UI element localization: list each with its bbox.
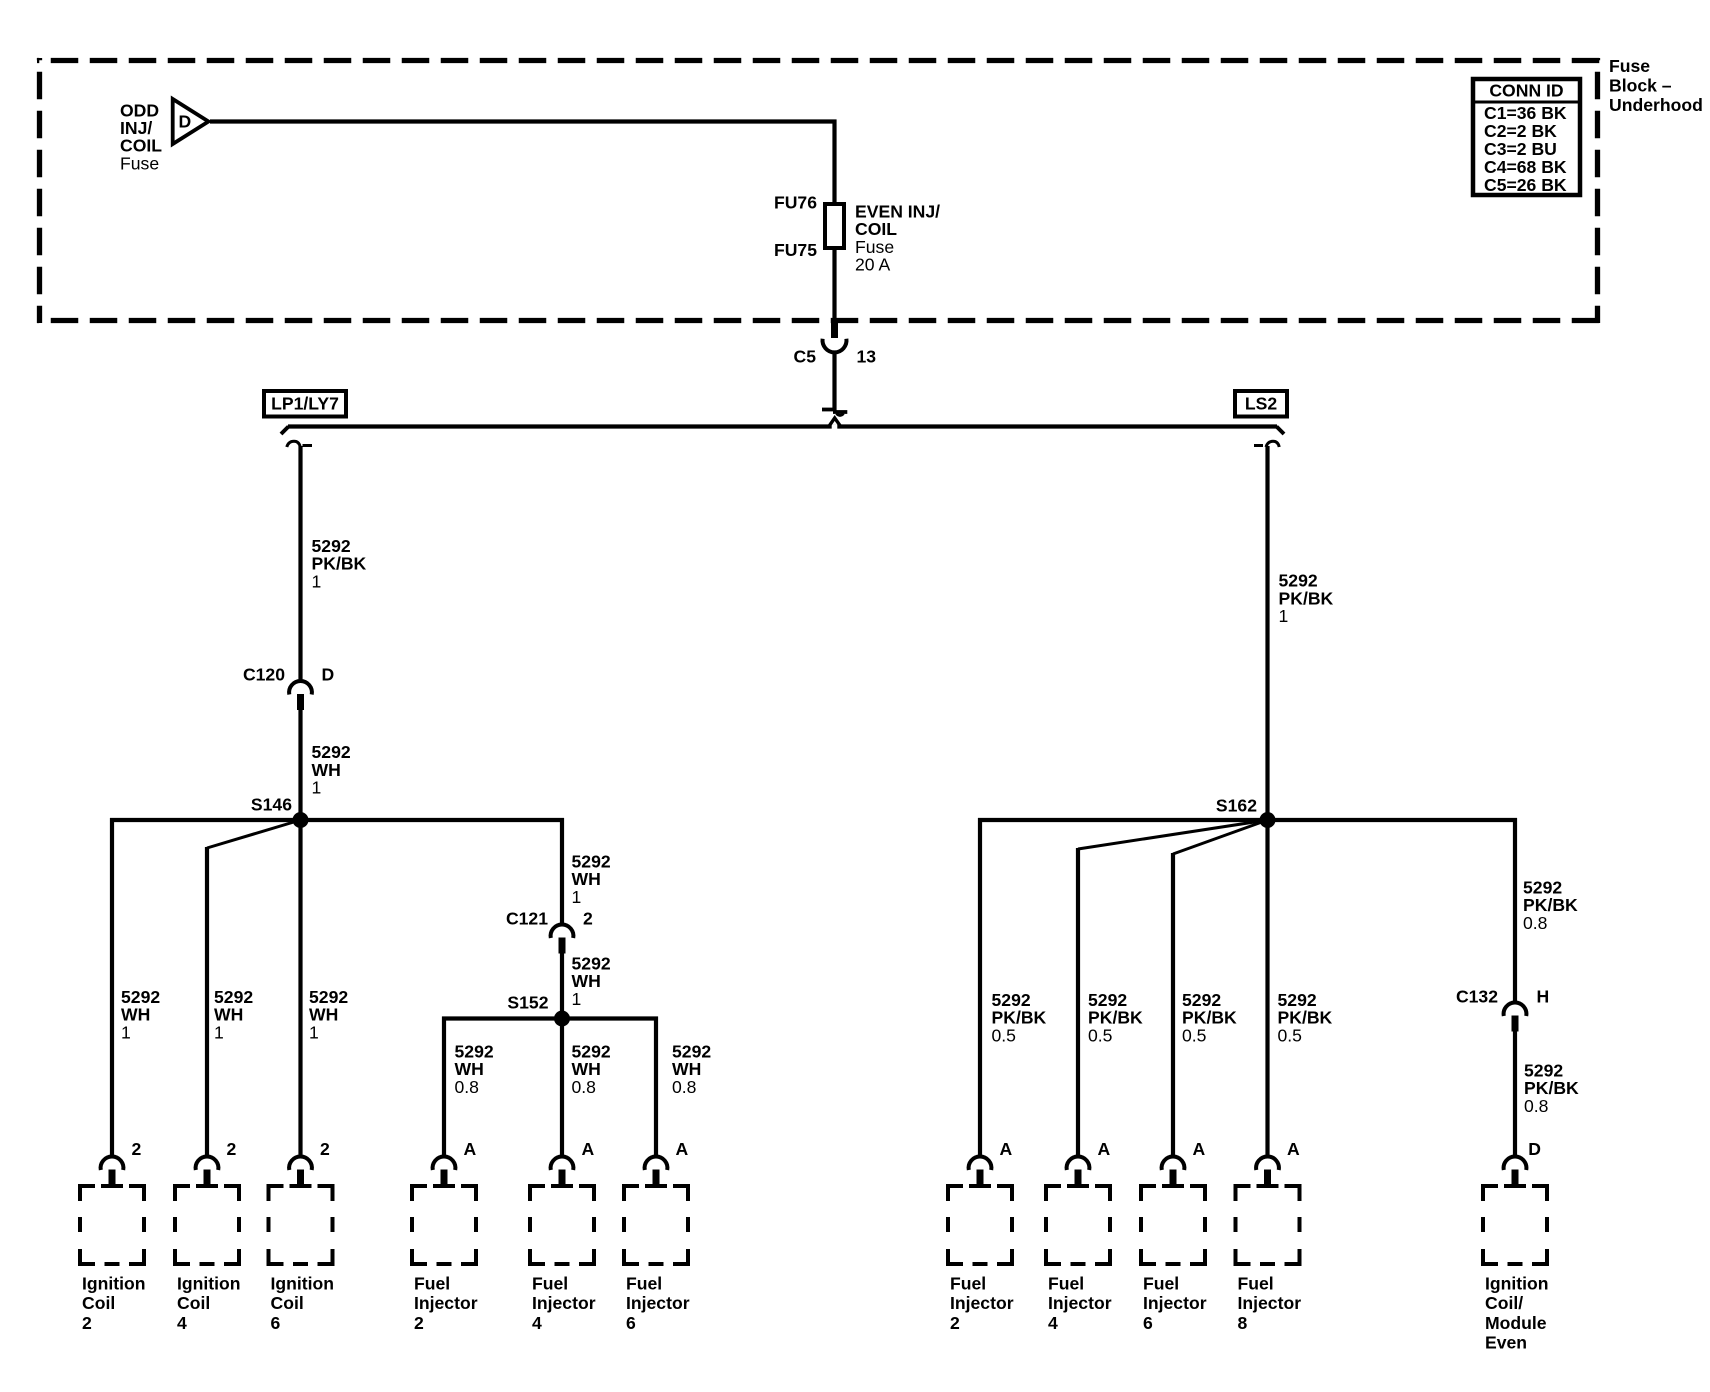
- svg-text:D: D: [1528, 1139, 1541, 1159]
- wire to Fuel Injector 6 (left): [654, 1017, 658, 1157]
- svg-text:Injector: Injector: [532, 1293, 596, 1313]
- svg-text:Coil: Coil: [271, 1293, 304, 1313]
- svg-text:0.5: 0.5: [992, 1025, 1017, 1045]
- wire to Fuel Injector 8: [1265, 820, 1269, 1157]
- node LS2: [1235, 391, 1287, 417]
- svg-text:Fuse: Fuse: [1609, 56, 1650, 76]
- label C132: [1456, 986, 1498, 1006]
- svg-text:Injector: Injector: [1143, 1293, 1207, 1313]
- svg-text:A: A: [464, 1139, 477, 1159]
- label FU76: [774, 192, 817, 212]
- svg-text:0.5: 0.5: [1088, 1025, 1113, 1045]
- svg-text:1: 1: [309, 1022, 319, 1042]
- component box Ignition Coil 4: [175, 1186, 239, 1264]
- svg-text:Injector: Injector: [950, 1293, 1014, 1313]
- svg-text:Ignition: Ignition: [177, 1273, 241, 1293]
- component box Fuel Injector 2: [948, 1186, 1012, 1264]
- label 5292 WH 1 (coil 2): [121, 987, 160, 1043]
- label Fuel Injector 2: [414, 1273, 478, 1333]
- label FU75: [774, 240, 817, 260]
- svg-text:13: 13: [857, 346, 877, 366]
- wire 5292 PK/BK to S162: [1265, 446, 1269, 820]
- svg-text:Even: Even: [1485, 1333, 1527, 1353]
- connector C121 pin 2: [551, 924, 574, 953]
- label 5292 WH 1 (coil 4): [214, 987, 253, 1043]
- svg-text:1: 1: [572, 989, 582, 1009]
- splice S162: [1260, 812, 1276, 828]
- pin H: [1537, 986, 1550, 1006]
- wire to Fuel Injector 2 (left): [442, 1017, 446, 1157]
- svg-text:Injector: Injector: [626, 1293, 690, 1313]
- connector pin 2 at Ignition Coil 6: [289, 1156, 312, 1185]
- fuse FU76/FU75 EVEN INJ/COIL 20A: [825, 204, 844, 248]
- fuse symbol ODD INJ/COIL (triangle D): [173, 99, 209, 144]
- pin A: [676, 1139, 689, 1159]
- connector pin A at Fuel Injector 6: [1162, 1156, 1185, 1185]
- svg-text:Injector: Injector: [1238, 1293, 1302, 1313]
- node LP1/LY7: [264, 391, 346, 417]
- svg-text:0.8: 0.8: [1524, 1096, 1549, 1116]
- label Fuel Injector 4: [1048, 1273, 1112, 1333]
- wire S152 bus: [442, 1016, 658, 1020]
- pin A: [1287, 1139, 1300, 1159]
- connector pin A at Fuel Injector 2: [433, 1156, 456, 1185]
- label 5292 WH 1 (below C121): [572, 953, 611, 1009]
- wire C121 to S152: [560, 954, 564, 1019]
- label C5: [794, 346, 817, 366]
- svg-text:4: 4: [177, 1313, 187, 1333]
- svg-text:2: 2: [583, 908, 593, 928]
- connector pin 2 at Ignition Coil 4: [196, 1156, 219, 1185]
- svg-text:1: 1: [312, 572, 322, 592]
- label Fuse Block - Underhood: [1609, 56, 1703, 115]
- svg-text:C5=26 BK: C5=26 BK: [1484, 175, 1567, 195]
- label Ignition Coil/ Module Even: [1485, 1273, 1549, 1352]
- svg-text:Coil: Coil: [177, 1293, 210, 1313]
- label 5292 WH 1 (below C120): [312, 742, 351, 798]
- svg-text:Block –: Block –: [1609, 75, 1672, 95]
- component box Fuel Injector 6: [624, 1186, 688, 1264]
- splice S146: [293, 812, 309, 828]
- connector pin A at Fuel Injector 6: [645, 1156, 668, 1185]
- svg-text:Coil: Coil: [82, 1293, 115, 1313]
- wire to Fuel Injector 2 (right): [978, 818, 982, 1157]
- svg-text:Fuel: Fuel: [950, 1273, 986, 1293]
- connector pin D at Ignition Coil/ Module Even: [1504, 1156, 1527, 1185]
- label Ignition Coil 2: [82, 1273, 146, 1333]
- label 5292 PK/BK 0.5 (inj 2): [992, 990, 1047, 1046]
- wire to Fuel Injector 4 (left): [560, 1019, 564, 1157]
- label 5292 WH 1 (above C121): [572, 851, 611, 907]
- label 5292 PK/BK 0.8 (above C132): [1523, 877, 1578, 933]
- svg-text:A: A: [1287, 1139, 1300, 1159]
- svg-text:D: D: [179, 111, 192, 131]
- svg-text:Fuel: Fuel: [626, 1273, 662, 1293]
- wire S162 to C132: [1513, 818, 1517, 1003]
- svg-text:Ignition: Ignition: [82, 1273, 146, 1293]
- component box Ignition Coil 2: [80, 1186, 144, 1264]
- svg-text:FU76: FU76: [774, 192, 817, 212]
- svg-text:C121: C121: [506, 908, 548, 928]
- svg-text:Fuel: Fuel: [532, 1273, 568, 1293]
- component box Fuel Injector 2: [412, 1186, 476, 1264]
- svg-text:0.5: 0.5: [1182, 1025, 1207, 1045]
- label Ignition Coil 6: [271, 1273, 335, 1333]
- svg-text:C1=36 BK: C1=36 BK: [1484, 103, 1567, 123]
- svg-text:S152: S152: [507, 992, 548, 1012]
- svg-text:A: A: [1000, 1139, 1013, 1159]
- wire from fuse FU75 to connector C5: [832, 248, 836, 318]
- svg-text:A: A: [676, 1139, 689, 1159]
- svg-text:CONN ID: CONN ID: [1489, 81, 1563, 101]
- component box Fuel Injector 6: [1141, 1186, 1205, 1264]
- component box Fuel Injector 4: [530, 1186, 594, 1264]
- component box Ignition Coil/ Module Even: [1483, 1186, 1547, 1264]
- svg-text:0.8: 0.8: [1523, 913, 1548, 933]
- connector pin A at Fuel Injector 4: [1067, 1156, 1090, 1185]
- label 5292 PK/BK 0.5 (inj 6): [1182, 990, 1237, 1046]
- pin D: [322, 664, 335, 684]
- svg-text:0.8: 0.8: [455, 1077, 480, 1097]
- label 5292 PK/BK 0.5 (inj 8): [1278, 990, 1333, 1046]
- label Fuel Injector 6: [626, 1273, 690, 1333]
- fuse block underhood dashed boundary: [37, 58, 1600, 323]
- svg-text:1: 1: [312, 778, 322, 798]
- CONN ID table: [1473, 79, 1580, 195]
- svg-text:4: 4: [1048, 1313, 1058, 1333]
- wire from triangle to fuse FU76: [210, 120, 837, 205]
- svg-text:2: 2: [227, 1139, 237, 1159]
- svg-text:1: 1: [121, 1022, 131, 1042]
- svg-text:Coil/: Coil/: [1485, 1293, 1523, 1313]
- label 5292 PK/BK 0.8 (below C132): [1524, 1060, 1579, 1116]
- svg-text:2: 2: [132, 1139, 142, 1159]
- svg-text:Fuel: Fuel: [1048, 1273, 1084, 1293]
- label Fuel Injector 8: [1238, 1273, 1302, 1333]
- svg-text:Ignition: Ignition: [271, 1273, 335, 1293]
- label Fuel Injector 6: [1143, 1273, 1207, 1333]
- svg-text:C120: C120: [243, 664, 285, 684]
- splice S152: [554, 1011, 570, 1027]
- svg-text:C5: C5: [794, 346, 817, 366]
- svg-text:H: H: [1537, 986, 1550, 1006]
- engine option split bus: [281, 427, 1284, 435]
- label Fuel Injector 4: [532, 1273, 596, 1333]
- connector C120 pin D: [289, 681, 312, 710]
- component box Ignition Coil 6: [269, 1186, 333, 1264]
- label S152: [507, 992, 548, 1012]
- svg-text:S162: S162: [1216, 795, 1257, 815]
- svg-text:Fuel: Fuel: [1238, 1273, 1274, 1293]
- pin A: [1193, 1139, 1206, 1159]
- pin A: [1098, 1139, 1111, 1159]
- svg-text:6: 6: [271, 1313, 281, 1333]
- connector pin 2 at Ignition Coil 2: [101, 1156, 124, 1185]
- connector C5 pin 13: [823, 318, 847, 352]
- label C121: [506, 908, 548, 928]
- connector pin A at Fuel Injector 8: [1256, 1156, 1279, 1185]
- connector pin A at Fuel Injector 2: [969, 1156, 992, 1185]
- split chevron at C5 feed: [828, 418, 841, 429]
- svg-text:8: 8: [1238, 1313, 1248, 1333]
- component box Fuel Injector 8: [1236, 1186, 1300, 1264]
- branch hook LP1/LY7: [287, 441, 312, 447]
- svg-text:Injector: Injector: [1048, 1293, 1112, 1313]
- branch hook LS2: [1254, 441, 1279, 447]
- svg-text:LS2: LS2: [1245, 393, 1277, 413]
- svg-text:6: 6: [1143, 1313, 1153, 1333]
- pin 2: [320, 1139, 330, 1159]
- wire to Fuel Injector 4 (right, diagonal): [1078, 820, 1268, 1157]
- svg-text:0.5: 0.5: [1278, 1025, 1303, 1045]
- wire C132 to Ignition Coil/Module Even: [1513, 1032, 1517, 1157]
- svg-text:Module: Module: [1485, 1313, 1547, 1333]
- pin 13: [857, 346, 877, 366]
- wire to Ignition Coil 4 (diagonal): [207, 820, 301, 1157]
- svg-text:Underhood: Underhood: [1609, 95, 1703, 115]
- svg-text:A: A: [1098, 1139, 1111, 1159]
- label 5292 PK/BK 1 (left): [312, 536, 367, 592]
- pin A: [1000, 1139, 1013, 1159]
- svg-text:2: 2: [320, 1139, 330, 1159]
- wire from C5 to split: [832, 351, 836, 411]
- wire to Fuel Injector 6 (right, diagonal): [1173, 820, 1268, 1157]
- label Ignition Coil 4: [177, 1273, 241, 1333]
- label 5292 WH 0.8 (inj 6): [672, 1041, 711, 1097]
- pin 2: [227, 1139, 237, 1159]
- wire 5292 WH from C120 to S146: [298, 710, 302, 820]
- connector C132 pin H: [1504, 1002, 1527, 1031]
- pin 2: [132, 1139, 142, 1159]
- svg-text:2: 2: [950, 1313, 960, 1333]
- wire 5292 PK/BK to C120: [298, 446, 302, 681]
- component box Fuel Injector 4: [1046, 1186, 1110, 1264]
- svg-text:0.8: 0.8: [672, 1077, 697, 1097]
- label 5292 WH 0.8 (inj 2): [455, 1041, 494, 1097]
- svg-text:1: 1: [1279, 606, 1289, 626]
- svg-text:6: 6: [626, 1313, 636, 1333]
- label 5292 PK/BK 1 (right): [1279, 571, 1334, 627]
- svg-text:4: 4: [532, 1313, 542, 1333]
- svg-text:Fuse: Fuse: [120, 153, 159, 173]
- label EVEN INJ/COIL Fuse 20 A: [855, 201, 940, 274]
- svg-text:C4=68 BK: C4=68 BK: [1484, 157, 1567, 177]
- label 5292 WH 1 (coil 6): [309, 987, 348, 1043]
- label S146: [251, 794, 292, 814]
- svg-text:1: 1: [214, 1022, 224, 1042]
- label Fuel Injector 2: [950, 1273, 1014, 1333]
- svg-text:Fuel: Fuel: [414, 1273, 450, 1293]
- svg-text:D: D: [322, 664, 335, 684]
- svg-text:2: 2: [414, 1313, 424, 1333]
- label ODD INJ/COIL Fuse: [120, 100, 162, 173]
- svg-text:S146: S146: [251, 794, 292, 814]
- label C120: [243, 664, 285, 684]
- pin 2: [583, 908, 593, 928]
- svg-text:Ignition: Ignition: [1485, 1273, 1549, 1293]
- svg-text:20 A: 20 A: [855, 255, 890, 275]
- svg-text:FU75: FU75: [774, 240, 817, 260]
- pin D: [1528, 1139, 1541, 1159]
- wire S162 bus: [978, 818, 1517, 822]
- connector pin A at Fuel Injector 4: [551, 1156, 574, 1185]
- label 5292 WH 0.8 (inj 4): [572, 1041, 611, 1097]
- wire from S146 to C121: [560, 818, 564, 925]
- label 5292 PK/BK 0.5 (inj 4): [1088, 990, 1143, 1046]
- wire to Ignition Coil 2: [110, 818, 114, 1157]
- wire break symbol above split: [822, 410, 847, 416]
- svg-text:2: 2: [82, 1313, 92, 1333]
- svg-text:LP1/LY7: LP1/LY7: [271, 393, 339, 413]
- label S162: [1216, 795, 1257, 815]
- svg-text:1: 1: [572, 887, 582, 907]
- svg-text:Injector: Injector: [414, 1293, 478, 1313]
- svg-text:Fuel: Fuel: [1143, 1273, 1179, 1293]
- svg-text:A: A: [1193, 1139, 1206, 1159]
- wire S146 bus: [110, 818, 564, 822]
- wire to Ignition Coil 6: [298, 820, 302, 1157]
- svg-text:C132: C132: [1456, 986, 1498, 1006]
- svg-text:A: A: [582, 1139, 595, 1159]
- svg-text:0.8: 0.8: [572, 1077, 597, 1097]
- pin A: [464, 1139, 477, 1159]
- pin A: [582, 1139, 595, 1159]
